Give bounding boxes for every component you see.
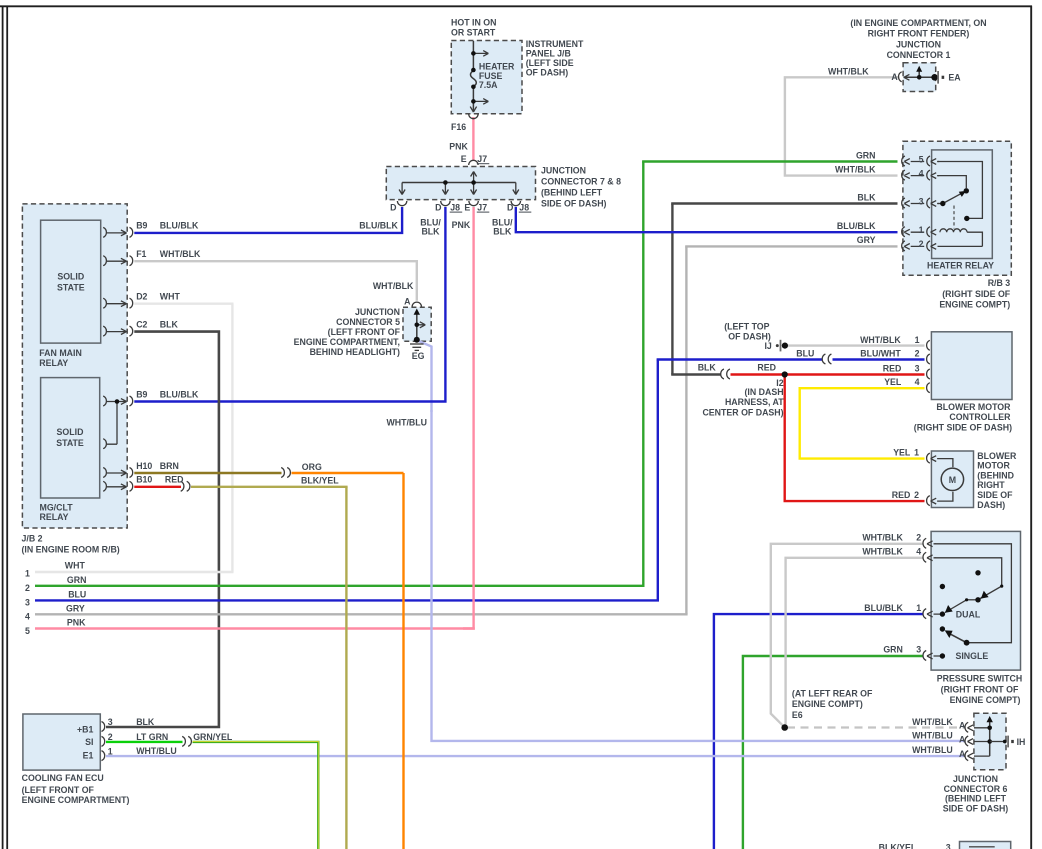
svg-text:YEL: YEL [884, 377, 902, 387]
svg-text:R/B 3: R/B 3 [988, 278, 1011, 288]
svg-text:(RIGHT SIDE OF: (RIGHT SIDE OF [942, 289, 1011, 299]
svg-text:4: 4 [25, 612, 30, 622]
svg-text:BLU: BLU [68, 590, 86, 600]
heater relay coil [940, 229, 967, 232]
svg-text:(BEHIND LEFT: (BEHIND LEFT [541, 187, 603, 197]
svg-text:GRY: GRY [857, 235, 876, 245]
svg-text:BLOWER MOTOR: BLOWER MOTOR [936, 402, 1011, 412]
bottom connector arcs [397, 201, 406, 206]
svg-text:WHT/BLK: WHT/BLK [862, 533, 903, 543]
controller pin arcs [927, 340, 930, 350]
svg-text:CONNECTOR 1: CONNECTOR 1 [887, 50, 951, 60]
svg-text:STATE: STATE [56, 438, 84, 448]
svg-text:(RIGHT FRONT OF: (RIGHT FRONT OF [941, 684, 1019, 694]
svg-text:WHT/BLK: WHT/BLK [835, 164, 876, 174]
svg-text:A: A [959, 734, 966, 744]
svg-text:RIGHT FRONT FENDER): RIGHT FRONT FENDER) [868, 29, 970, 39]
svg-text:E: E [464, 202, 470, 212]
svg-text:BLK: BLK [421, 227, 440, 237]
mg/clt second pin and riser [103, 402, 117, 449]
svg-text:2: 2 [916, 533, 921, 543]
svg-text:RELAY: RELAY [40, 512, 69, 522]
wire WHT/BLU to JC6 pin2 [432, 410, 965, 741]
svg-text:3: 3 [946, 843, 951, 849]
svg-text:ENGINE COMPT): ENGINE COMPT) [792, 699, 863, 709]
heater relay inner box [932, 150, 993, 259]
svg-text:BLU: BLU [796, 349, 814, 359]
wire WHT/BLU E1 to JC6 pin3 [106, 755, 964, 757]
junction connector 6 box (dashed) [974, 713, 1006, 770]
connector E J7 arc [469, 160, 478, 165]
wire BLK to connector before RED [671, 373, 720, 375]
svg-text:SINGLE: SINGLE [956, 651, 989, 661]
svg-text:(BEHIND LEFT: (BEHIND LEFT [945, 794, 1007, 804]
wire BLK vertical (heater pin3 to splice I2) [671, 204, 673, 375]
svg-text:RED: RED [757, 363, 776, 373]
svg-text:3: 3 [915, 364, 920, 374]
svg-text:A: A [891, 72, 898, 82]
svg-text:WHT/BLK: WHT/BLK [862, 547, 903, 557]
svg-text:WHT/BLK: WHT/BLK [160, 249, 201, 259]
svg-text:A: A [404, 297, 411, 307]
bottom right partial box [960, 842, 1011, 849]
svg-text:GRN: GRN [883, 645, 903, 655]
wire BLU/BLK mg/clt B9 to JC8 arc [134, 207, 445, 402]
wire WHT/BLK dashed E6 to JC6 [787, 726, 964, 728]
connector F16 arc [469, 114, 478, 119]
pin H10 [103, 468, 133, 478]
motor circle [941, 468, 963, 490]
svg-text:D: D [507, 202, 513, 212]
svg-text:YEL: YEL [893, 448, 911, 458]
fan main relay box [41, 220, 101, 343]
svg-text:CONNECTOR 6: CONNECTOR 6 [944, 784, 1008, 794]
svg-text:BLK: BLK [698, 363, 717, 373]
svg-text:4: 4 [919, 168, 924, 178]
svg-text:F16: F16 [451, 122, 466, 132]
pin2 internal path [935, 544, 1011, 643]
svg-text:HARNESS, AT: HARNESS, AT [725, 397, 784, 407]
J7/J8 label underlines [477, 163, 490, 165]
svg-text:ENGINE COMPARTMENT): ENGINE COMPARTMENT) [22, 795, 130, 805]
cooling fan ECU box [23, 714, 100, 770]
up arrow to E J7 [471, 172, 477, 183]
svg-text:1: 1 [25, 569, 30, 579]
IH symbol [990, 741, 1005, 743]
ECU pin arcs [102, 722, 105, 732]
svg-text:MOTOR: MOTOR [977, 461, 1010, 471]
wire ORG vertical [402, 473, 404, 849]
wire ORG [292, 472, 404, 474]
svg-text:JUNCTION: JUNCTION [541, 165, 586, 175]
svg-text:J8: J8 [450, 202, 460, 212]
pin F1 [103, 256, 133, 266]
ground EA symbol [931, 74, 938, 81]
wire BRN H10 [134, 472, 281, 474]
svg-text:SIDE OF: SIDE OF [977, 490, 1013, 500]
heater relay contacts internal [938, 162, 983, 219]
svg-text:PANEL J/B: PANEL J/B [526, 48, 571, 58]
junction connector 1 box (dashed) [903, 63, 936, 92]
mg/clt relay box [41, 378, 100, 498]
svg-text:COOLING FAN ECU: COOLING FAN ECU [22, 773, 104, 783]
svg-text:IH: IH [1017, 737, 1026, 747]
wire GRN vertical (row2 to heater pin5) [642, 162, 644, 586]
svg-text:BLK: BLK [136, 717, 155, 727]
wire RED splice I2 to blower pin2 [785, 375, 925, 502]
svg-text:2: 2 [915, 349, 920, 359]
wire GRY row4 [35, 613, 688, 615]
wire WHT row1 [35, 571, 234, 573]
svg-text:RED: RED [892, 490, 911, 500]
svg-text:(AT LEFT REAR OF: (AT LEFT REAR OF [792, 688, 873, 698]
blower motor controller box [931, 332, 1012, 400]
svg-text:BLK/YEL: BLK/YEL [879, 843, 917, 849]
J/B 2 box (dashed) [22, 204, 127, 528]
svg-text:+B1: +B1 [77, 724, 93, 734]
svg-text:(LEFT TOP: (LEFT TOP [724, 321, 769, 331]
JC7/8 bus wire [402, 182, 516, 184]
svg-text:SI: SI [85, 737, 93, 747]
splice I2 dot [782, 371, 788, 377]
blower motor box [931, 451, 973, 508]
svg-text:STATE: STATE [57, 283, 85, 293]
wire BLK C2 to cooling fan ECU [106, 332, 219, 727]
svg-text:D: D [390, 202, 396, 212]
svg-text:BEHIND HEADLIGHT): BEHIND HEADLIGHT) [310, 347, 400, 357]
svg-text:ENGINE COMPARTMENT,: ENGINE COMPARTMENT, [294, 337, 400, 347]
svg-text:H10: H10 [136, 461, 152, 471]
wire RED splice I2 to controller pin3 [731, 373, 925, 375]
svg-text:OR START: OR START [451, 27, 496, 37]
svg-text:(IN ENGINE ROOM R/B): (IN ENGINE ROOM R/B) [22, 545, 120, 555]
svg-text:3: 3 [916, 645, 921, 655]
wire WHT/BLK pressure pin2 to E6 [771, 544, 923, 726]
svg-text:SIDE OF DASH): SIDE OF DASH) [541, 198, 607, 208]
svg-text:WHT/BLK: WHT/BLK [373, 281, 414, 291]
wire BLK/YEL vertical [345, 487, 347, 849]
svg-text:RED: RED [883, 364, 902, 374]
JC6 bus riser [989, 720, 991, 757]
svg-text:WHT/BLU: WHT/BLU [912, 731, 953, 741]
free contacts [975, 570, 980, 575]
svg-text:4: 4 [916, 547, 921, 557]
svg-text:CONNECTOR 7 & 8: CONNECTOR 7 & 8 [541, 176, 621, 186]
inline connector LTGRN-GRNYEL [182, 736, 191, 746]
svg-text:CONTROLLER: CONTROLLER [949, 412, 1011, 422]
svg-text:E1: E1 [83, 750, 94, 760]
svg-text:OF DASH): OF DASH) [526, 68, 569, 78]
dual blade [967, 599, 978, 601]
junction connector 7 & 8 box (dashed) [386, 167, 535, 200]
svg-text:M: M [949, 475, 956, 485]
wire WHT/BLK JC1 to heater pin4 [785, 77, 900, 175]
svg-text:A: A [959, 721, 966, 731]
JC5 internal riser [416, 312, 418, 340]
wire WHT/BLK F1 to JC5 [134, 261, 417, 301]
svg-text:JUNCTION: JUNCTION [355, 307, 400, 317]
wire BLK heater pin3 left [671, 202, 897, 204]
svg-text:2: 2 [108, 732, 113, 742]
motor pin connectors [927, 453, 953, 467]
wire BLU/BLK pressure pin1 [714, 614, 923, 849]
svg-text:WHT/BLU: WHT/BLU [386, 417, 427, 427]
wire GRN to heater pin5 [642, 160, 897, 162]
svg-text:1: 1 [915, 335, 920, 345]
single blade [947, 632, 967, 642]
JC1 riser arrow [918, 70, 920, 78]
svg-text:GRN/YEL: GRN/YEL [193, 732, 233, 742]
svg-text:1: 1 [914, 448, 919, 458]
svg-text:SOLID: SOLID [57, 427, 84, 437]
svg-text:E: E [461, 154, 467, 164]
pin B10 [103, 481, 133, 491]
pin C2 [103, 326, 133, 336]
svg-text:BLK/YEL: BLK/YEL [301, 476, 339, 486]
wire WHT/BLU vertical upper (from EG ground) [418, 341, 432, 413]
svg-text:J7: J7 [477, 154, 487, 164]
svg-text:1: 1 [108, 746, 113, 756]
svg-text:5: 5 [919, 154, 924, 164]
inline connector BLK-RED [721, 369, 730, 379]
svg-text:C2: C2 [136, 319, 147, 329]
svg-text:PNK: PNK [452, 220, 471, 230]
svg-text:DASH): DASH) [977, 500, 1005, 510]
svg-text:JUNCTION: JUNCTION [953, 774, 998, 784]
svg-text:SIDE OF DASH): SIDE OF DASH) [943, 803, 1009, 813]
wire WHT vertical (D2 to row1) [231, 304, 233, 572]
JC5 tap arrow [417, 322, 426, 328]
svg-text:EA: EA [948, 73, 961, 83]
svg-text:RELAY: RELAY [39, 358, 68, 368]
svg-text:WHT: WHT [65, 561, 86, 571]
wire BLU row3 to connector [657, 358, 822, 360]
pin B9 mg/clt [103, 396, 133, 406]
wire RED B10 [134, 486, 181, 488]
svg-text:LT GRN: LT GRN [136, 732, 168, 742]
svg-text:GRN: GRN [67, 575, 87, 585]
heater relay pin connectors [902, 156, 939, 166]
E6 splice dot [781, 724, 788, 731]
svg-text:BLU/WHT: BLU/WHT [860, 349, 901, 359]
svg-text:E6: E6 [792, 710, 803, 720]
heater relay R/B3 box (dashed) [903, 141, 1011, 275]
heater fuse element [471, 71, 477, 87]
svg-text:MG/CLT: MG/CLT [40, 502, 74, 512]
inline connector BLU-BLU/WHT [822, 354, 831, 364]
svg-text:PNK: PNK [67, 618, 86, 628]
pin D2 [103, 298, 133, 308]
svg-text:DUAL: DUAL [956, 609, 981, 619]
wire BLK/YEL from B10 connector [191, 486, 348, 488]
wire BLU/WHT to controller pin2 [833, 358, 925, 360]
svg-text:D2: D2 [136, 292, 147, 302]
svg-text:HEATER RELAY: HEATER RELAY [927, 260, 994, 270]
svg-text:A: A [959, 749, 966, 759]
svg-text:3: 3 [108, 717, 113, 727]
fuse tap arrows [473, 51, 488, 57]
svg-text:J8: J8 [519, 202, 529, 212]
svg-text:PNK: PNK [449, 141, 468, 151]
svg-text:WHT: WHT [160, 292, 181, 302]
svg-text:GRN: GRN [856, 150, 876, 160]
JC6 pin connectors [965, 722, 990, 732]
svg-text:(RIGHT SIDE OF DASH): (RIGHT SIDE OF DASH) [914, 422, 1012, 432]
svg-text:2: 2 [25, 583, 30, 593]
svg-text:ORG: ORG [302, 462, 322, 472]
svg-text:5: 5 [25, 626, 30, 636]
svg-text:D: D [435, 202, 441, 212]
wire GRY vertical (row4 to heater pin2) [685, 246, 687, 614]
svg-text:(LEFT FRONT OF: (LEFT FRONT OF [328, 327, 401, 337]
wire GRN row2 [35, 585, 645, 587]
wire YEL controller pin4 to blower pin1 [800, 388, 925, 458]
svg-text:2: 2 [914, 490, 919, 500]
wire BLU/BLK JC8 to heater relay pin1 [516, 207, 898, 232]
pin B9 fan main [103, 227, 133, 237]
wire PNK row5 [35, 627, 475, 629]
svg-text:2: 2 [919, 239, 924, 249]
svg-text:F1: F1 [136, 249, 146, 259]
wire WHT D2 row [134, 303, 233, 305]
svg-text:EG: EG [412, 351, 425, 361]
inline connector BRN-ORG [281, 468, 290, 478]
svg-text:FAN MAIN: FAN MAIN [39, 348, 82, 358]
svg-text:3: 3 [25, 598, 30, 608]
svg-text:(BEHIND: (BEHIND [977, 470, 1014, 480]
bus junction dots [443, 180, 448, 185]
down arrows [399, 183, 405, 195]
wire PNK vertical [463, 207, 474, 629]
svg-text:PRESSURE SWITCH: PRESSURE SWITCH [937, 674, 1023, 684]
JC5 top connector arc [412, 302, 421, 307]
wire GRN/YEL [193, 742, 319, 849]
svg-text:1: 1 [919, 225, 924, 235]
wire WHT/BLK pressure pin4 to E6 [786, 558, 923, 725]
svg-text:B10: B10 [136, 475, 152, 485]
wire GRY heater pin2 left [685, 245, 897, 247]
svg-text:BLK: BLK [493, 227, 512, 237]
wire BLU row3 [35, 599, 659, 601]
wire PNK fuse to JC7 [472, 117, 474, 161]
svg-text:HOT IN ON: HOT IN ON [451, 17, 496, 27]
junction connector 5 box (dashed) [403, 307, 431, 341]
heater fuse internal wire [472, 41, 474, 71]
svg-text:WHT/BLK: WHT/BLK [860, 335, 901, 345]
svg-text:4: 4 [915, 377, 920, 387]
svg-text:WHT/BLK: WHT/BLK [912, 717, 953, 727]
svg-text:1: 1 [916, 603, 921, 613]
wire BLU/BLK fan main B9 to JC7 arc [134, 207, 402, 233]
svg-text:(IN ENGINE COMPARTMENT, ON: (IN ENGINE COMPARTMENT, ON [850, 18, 986, 28]
svg-text:WHT/BLU: WHT/BLU [912, 745, 953, 755]
JC1 internal wire [904, 76, 935, 78]
svg-text:ENGINE COMPT): ENGINE COMPT) [950, 695, 1021, 705]
fuse junction dots [471, 51, 476, 56]
wire GRN pressure pin3 [743, 656, 923, 849]
svg-text:CENTER OF DASH): CENTER OF DASH) [702, 407, 783, 417]
inline connector RED-BLKYEL [181, 481, 190, 491]
svg-text:IJ: IJ [764, 341, 771, 351]
svg-text:BLK: BLK [857, 192, 876, 202]
svg-text:(LEFT FRONT OF: (LEFT FRONT OF [22, 785, 95, 795]
instrument panel J/B fuse box (dashed) [451, 41, 522, 114]
svg-text:WHT/BLU: WHT/BLU [136, 746, 177, 756]
wire WHT/BLK IJ to controller pin1 [785, 344, 925, 346]
svg-text:SOLID: SOLID [57, 272, 84, 282]
svg-text:B9: B9 [136, 221, 147, 231]
svg-text:7.5A: 7.5A [479, 80, 498, 90]
wire BLU vertical (row3 to blower pin2) [657, 360, 659, 601]
pin4 internal path [935, 558, 1002, 599]
svg-text:WHT/BLK: WHT/BLK [828, 66, 869, 76]
svg-text:BLU/BLK: BLU/BLK [864, 603, 903, 613]
svg-text:(IN DASH: (IN DASH [744, 387, 783, 397]
ground EG [414, 337, 420, 343]
splice IJ symbol [776, 344, 779, 347]
svg-text:BLU/BLK: BLU/BLK [837, 221, 876, 231]
svg-text:BLU/BLK: BLU/BLK [160, 389, 199, 399]
svg-text:RED: RED [165, 475, 184, 485]
svg-text:B9: B9 [136, 389, 147, 399]
pressure pin connectors [923, 538, 936, 548]
pressure switch box [931, 531, 1020, 670]
svg-text:BLU/BLK: BLU/BLK [160, 221, 199, 231]
svg-text:J7: J7 [477, 202, 487, 212]
wire LT GRN SI [106, 741, 183, 743]
svg-text:ENGINE COMPT): ENGINE COMPT) [939, 300, 1010, 310]
svg-text:RIGHT: RIGHT [977, 480, 1005, 490]
svg-text:GRY: GRY [66, 604, 85, 614]
svg-text:CONNECTOR 5: CONNECTOR 5 [336, 317, 400, 327]
svg-text:3: 3 [919, 196, 924, 206]
svg-text:BLK: BLK [160, 319, 179, 329]
svg-text:BLU/BLK: BLU/BLK [359, 221, 398, 231]
svg-text:JUNCTION: JUNCTION [896, 40, 941, 50]
svg-text:BRN: BRN [160, 461, 179, 471]
svg-text:BLOWER: BLOWER [977, 451, 1017, 461]
svg-text:J/B 2: J/B 2 [22, 534, 43, 544]
